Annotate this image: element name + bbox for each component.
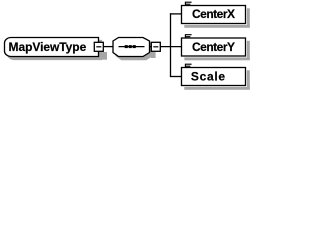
shadow of element CenterX box — [247, 8, 250, 27]
shadow of complexType MapViewType box — [8, 41, 102, 60]
sequence compositor octagon — [113, 38, 150, 57]
complexType MapViewType box — [5, 38, 99, 57]
wire: square1 to sequence octagon — [98, 46, 114, 48]
shadow of expand button 1 — [99, 52, 107, 60]
element Scale box — [182, 68, 246, 86]
wire: octagon to square2 — [149, 46, 152, 48]
element icon CenterX — [185, 2, 191, 6]
expand button 2 (minus) — [151, 42, 160, 51]
shadow of element CenterY box — [247, 41, 250, 60]
svg-text:CenterX: CenterX — [192, 7, 235, 21]
wire: bottom branch to Scale — [170, 76, 182, 78]
wire: top branch to CenterX — [170, 13, 182, 15]
svg-text:Scale: Scale — [191, 69, 226, 83]
wire: vertical trunk — [170, 13, 172, 76]
element CenterX box — [182, 6, 246, 24]
expand button 1 (minus) — [94, 42, 103, 51]
wire: square2 to CenterY box — [160, 46, 182, 48]
shadow of element Scale box — [247, 70, 250, 89]
shadow of sequence octagon — [116, 41, 153, 60]
svg-text:CenterY: CenterY — [192, 40, 235, 54]
element icon Scale — [185, 64, 191, 68]
element CenterY box — [182, 38, 246, 56]
svg-text:MapViewType: MapViewType — [9, 40, 87, 54]
shadow of expand button 2 — [151, 52, 156, 58]
sequence icon: line with three dots — [119, 46, 145, 48]
element icon CenterY — [185, 34, 191, 38]
